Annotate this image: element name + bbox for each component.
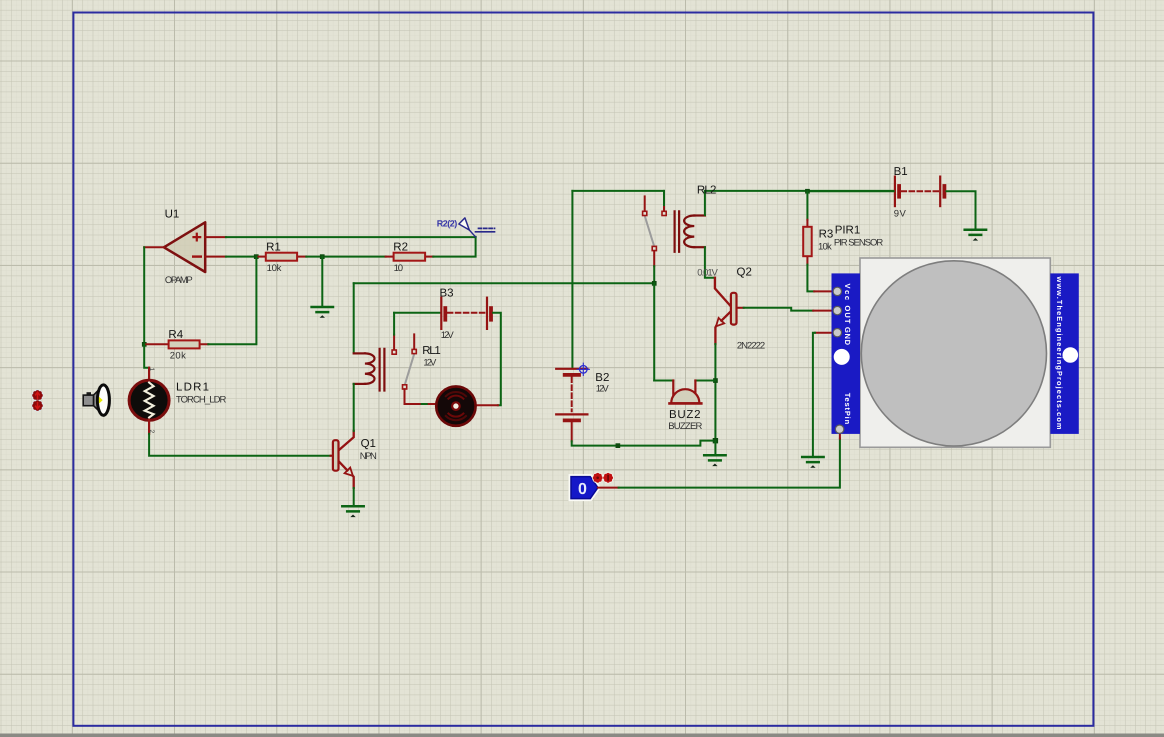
- wire: B2 bottom rail: [572, 441, 713, 446]
- svg-text:10k: 10k: [818, 242, 832, 253]
- wire: buzzer left feed: [654, 380, 673, 382]
- transistor Q1: [331, 431, 354, 488]
- svg-text:PIR SENSOR: PIR SENSOR: [834, 238, 883, 249]
- svg-text:BUZ2: BUZ2: [669, 409, 701, 421]
- motor: [436, 386, 475, 425]
- wire: +input to feedback corner: [226, 236, 476, 238]
- battery B1: [895, 177, 945, 207]
- op-amp U1: [164, 222, 205, 272]
- wire: top rail RL2 to B1: [705, 190, 894, 192]
- PIR sensor module PIR1: [832, 258, 1079, 447]
- junction: ground branch node: [320, 254, 325, 259]
- probe marker dots: [592, 472, 614, 483]
- wire: RL2 coil bottom to Q2 collector: [705, 247, 715, 278]
- svg-text:TORCH_LDR: TORCH_LDR: [176, 394, 227, 405]
- junction: ground node: [713, 438, 718, 443]
- U1 non-inverting input pin stub: [205, 236, 226, 238]
- wire: Q2 emitter down: [714, 344, 716, 441]
- LDR1 pin 2 stub: [148, 420, 150, 434]
- wire: RL2 contact down to junction: [653, 251, 655, 266]
- svg-text:B3: B3: [440, 288, 454, 300]
- svg-text:R2(2): R2(2): [437, 219, 458, 229]
- wire: -input to R1: [226, 256, 258, 258]
- battery B2: [556, 369, 587, 442]
- wire: Q1 emitter to ground: [353, 488, 355, 506]
- PIR pin Vcc: [833, 287, 841, 295]
- resistor R3: [803, 191, 812, 264]
- svg-text:1: 1: [148, 368, 155, 372]
- wire: RL1 coil down to Q1 collector: [353, 384, 355, 431]
- svg-text:20k: 20k: [170, 351, 186, 362]
- svg-text:0.01V: 0.01V: [697, 268, 718, 279]
- svg-text:U1: U1: [165, 209, 180, 221]
- PIR mounting hole left: [834, 349, 850, 365]
- PIR pin GND: [833, 329, 841, 337]
- relay contact RL1: [392, 334, 422, 404]
- voltage probe R2(2): [459, 218, 495, 237]
- svg-text:GND: GND: [843, 327, 852, 346]
- junction: RL1 rail / buzzer branch: [652, 281, 657, 286]
- PIR pin TestPin: [835, 425, 843, 433]
- svg-text:RL2: RL2: [697, 184, 717, 196]
- svg-text:R4: R4: [168, 329, 183, 341]
- wire: R2 to feedback corner: [433, 237, 475, 257]
- svg-text:Q1: Q1: [361, 438, 376, 450]
- transistor Q2: [715, 278, 744, 344]
- wire: B1 right to ground: [947, 191, 976, 229]
- svg-text:10k: 10k: [267, 263, 282, 274]
- wire: probe to PIR TestPin: [598, 487, 619, 489]
- svg-text:R1: R1: [266, 242, 281, 254]
- junction: R3 / B1 rail node: [805, 189, 810, 194]
- ground (near R1): [312, 307, 333, 312]
- wire: B3 right down to motor: [493, 313, 501, 405]
- svg-text:OPAMP: OPAMP: [165, 275, 193, 286]
- wire: node to ground: [321, 257, 323, 307]
- wire: R4 right up to -input node: [208, 257, 256, 345]
- wire: RL1 top rail: [354, 282, 655, 284]
- actuator down button: [32, 400, 44, 412]
- svg-text:12V: 12V: [423, 358, 437, 369]
- wire: Q2 base to PIR OUT: [744, 308, 814, 311]
- svg-text:PIR1: PIR1: [835, 225, 861, 237]
- svg-text:B2: B2: [595, 372, 609, 384]
- svg-text:R3: R3: [819, 229, 834, 241]
- junction: output / R4 / LDR node: [142, 342, 147, 347]
- svg-text:B1: B1: [894, 166, 908, 178]
- junction: -input / R4 branch node: [254, 254, 259, 259]
- buzzer BUZ2: [670, 381, 702, 404]
- ground (Q1 emitter): [342, 506, 363, 511]
- svg-text:0: 0: [578, 481, 587, 498]
- svg-text:2N2222: 2N2222: [737, 340, 765, 351]
- U1 inverting input pin stub: [205, 256, 226, 258]
- logic probe 0: [571, 477, 598, 499]
- svg-text:10: 10: [394, 263, 404, 274]
- resistor R4: [146, 340, 208, 348]
- svg-text:OUT: OUT: [843, 306, 852, 324]
- torch actuator icon: [83, 385, 109, 415]
- wire: R4 node down to LDR: [144, 344, 149, 367]
- wire: R1 to R2: [306, 256, 385, 258]
- svg-text:R2: R2: [393, 242, 408, 254]
- PIR mounting hole right: [1063, 347, 1079, 363]
- wire: RL1 contact to motor: [422, 403, 429, 405]
- wire: junction down to buzzer: [653, 283, 655, 380]
- relay contact RL2: [643, 191, 667, 251]
- LDR LDR1: [129, 380, 169, 420]
- wire: B3 left lead: [394, 312, 440, 314]
- wire: PIR GND to ground: [815, 332, 833, 334]
- svg-text:TestPin: TestPin: [843, 393, 852, 425]
- svg-text:Q2: Q2: [737, 266, 752, 278]
- wire: junction to ground: [714, 441, 716, 455]
- svg-text:Vcc: Vcc: [843, 284, 852, 301]
- wire: RL2 coil top to rail: [704, 191, 706, 215]
- actuator up button: [32, 390, 44, 402]
- ground (B1): [965, 230, 986, 235]
- svg-text:9V: 9V: [894, 209, 907, 220]
- origin marker (B2): [577, 363, 589, 375]
- wire: top rail to RL2 contact: [572, 190, 664, 192]
- svg-text:NPN: NPN: [360, 451, 377, 462]
- relay coil RL1: [354, 349, 385, 391]
- svg-text:12V: 12V: [441, 330, 455, 341]
- junction: B2 bottom rail: [616, 443, 621, 448]
- wire: buzzer right feed: [695, 380, 715, 382]
- battery B3: [441, 298, 491, 329]
- PIR pin OUT: [833, 306, 841, 314]
- svg-text:BUZZER: BUZZER: [668, 421, 702, 432]
- U1 output pin stub: [144, 246, 164, 248]
- relay coil RL2: [675, 211, 705, 252]
- resistor R1: [258, 253, 306, 261]
- LDR1 pin 1 stub: [148, 368, 150, 382]
- wire: opamp output down to R4 node: [143, 247, 145, 344]
- ground (PIR GND): [802, 457, 823, 462]
- junction: buzzer right node: [713, 378, 718, 383]
- wire: mid rail vertical (B2 feed): [571, 191, 573, 368]
- resistor R2: [386, 253, 434, 261]
- svg-text:12V: 12V: [596, 384, 610, 395]
- svg-text:LDR1: LDR1: [176, 381, 209, 393]
- wire: LDR bottom to Q1 base: [149, 434, 331, 456]
- ground (B2/buzzer): [704, 455, 725, 460]
- wire: R3 to PIR Vcc: [807, 265, 814, 292]
- svg-text:www.TheEngineeringProjects.com: www.TheEngineeringProjects.com: [1055, 276, 1064, 430]
- wire: rail down to RL1 coil: [353, 283, 355, 352]
- svg-text:RL1: RL1: [422, 345, 441, 357]
- wire: RL1 contact up to B3: [393, 313, 395, 335]
- wire: top rail to B1: [807, 190, 893, 192]
